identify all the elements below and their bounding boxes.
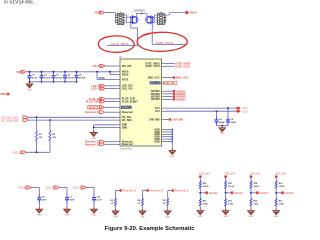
svg-text:LDO_3V3: LDO_3V3 [250,173,261,176]
ground (bottom B) [64,204,70,217]
net label GATE_VBUS (right) [175,62,191,66]
svg-text:C3: C3 [56,75,58,77]
svg-text:I2C_SDA: I2C_SDA [122,119,132,122]
junction [29,81,31,83]
node ADCIN3 [173,95,186,99]
svg-text:LDO_3V3: LDO_3V3 [225,173,236,176]
svg-text:GND: GND [91,138,96,140]
junction [64,81,66,83]
wire right GND bus [165,129,174,149]
svg-text:VBUS: VBUS [190,11,197,15]
svg-text:100.1k: 100.1k [228,186,235,188]
wire VBUS pin 2 branch [110,72,117,75]
svg-text:VIN_3V3: VIN_3V3 [122,65,132,68]
wire ADCIN2 [165,93,173,95]
node PLUG_EVENT [86,100,105,104]
svg-text:VIN_3V3: VIN_3V3 [19,187,29,190]
node RESETZ [88,106,105,110]
wire bottom B [59,188,67,194]
resistor R14 [250,181,260,189]
svg-text:CC2: CC2 [155,110,160,113]
node LDO_3V3 (divider ADCIN2) [224,173,236,178]
node VBUS_C fragment (page edge) [0,93,10,96]
svg-text:C2: C2 [44,75,46,77]
node VBUS_SNK (top-right port) [185,11,197,15]
junction [53,71,55,73]
wire GATE_VBUS [165,63,175,65]
junction [36,116,38,118]
svg-text:GATE_VSYS: GATE_VSYS [155,41,173,45]
resistor R13 [225,199,234,207]
wire CC caps join [217,125,229,127]
node Reserved (row15) [85,140,104,143]
svg-text:330pF: 330pF [231,122,237,124]
svg-text:0.01uF: 0.01uF [44,78,51,80]
svg-text:C8: C8 [219,119,221,121]
wire left GND join [93,125,117,131]
svg-text:GND: GND [154,140,160,143]
svg-text:LDO_1V5: LDO_1V5 [164,83,175,85]
svg-text:0.01uF: 0.01uF [56,78,63,80]
wire SINK_EN [164,82,165,84]
svg-text:330pF: 330pF [219,122,225,124]
svg-text:LDO_1V5: LDO_1V5 [122,87,133,90]
node CAP_MIS [169,118,184,122]
net label GATE_VSYS [155,41,173,45]
svg-text:CC2: CC2 [243,110,249,113]
svg-text:0.01uF: 0.01uF [79,78,86,80]
junction [49,119,51,121]
node I2C_SCL [2,116,29,120]
ground (bottom A) [36,204,42,217]
node VIN_3V3 [92,65,104,69]
junction [76,81,78,83]
svg-text:LDO_3V3: LDO_3V3 [275,173,286,176]
node LDO_3V3 (left) [91,84,104,88]
node Reserved_R (R5) [171,189,188,193]
capacitor C3 [52,72,63,82]
node ADCIN3 (divider tap) [251,191,269,195]
svg-text:Reserved_3V: Reserved_3V [85,144,100,146]
svg-text:R16: R16 [279,183,282,185]
wire VBUS rail [26,71,117,73]
capacitor C9 [226,108,237,126]
svg-text:10k: 10k [39,137,43,139]
junction [41,81,43,83]
capacitor C8 [215,111,226,126]
svg-text:in SLVSF36E.: in SLVSF36E. [4,0,35,6]
capacitor C6 [37,194,47,205]
svg-text:R2: R2 [53,134,55,136]
wire bottom R3 stub [116,191,120,199]
svg-text:GATE_VSYS: GATE_VSYS [146,65,161,68]
svg-text:VSYS: VSYS [122,78,129,81]
wire DBG_ACC [165,77,173,79]
wire LDO_1V5 [105,88,117,90]
junction [53,81,55,83]
svg-text:R3: R3 [110,200,112,202]
node Reserved (row16) [85,143,104,146]
wire ADCIN4 [165,98,173,100]
ground (cap bank) [26,82,32,92]
svg-text:1.00k: 1.00k [279,203,285,205]
svg-text:LDO_3V3: LDO_3V3 [46,187,57,190]
wire divider ADCIN2 top [225,177,227,181]
svg-text:1.00k: 1.00k [254,203,260,205]
wire bottom R5 stub [168,191,172,199]
capacitor C4 [63,72,74,82]
node ADCIN4 (divider tap) [276,191,294,195]
capacitor C10 [92,194,102,205]
svg-text:GND: GND [140,216,145,218]
wire bottom C [86,188,94,194]
wire Q1 gate net [107,23,138,45]
ground (divider ADCIN4) [273,209,279,219]
wire R5 to ground [167,206,169,209]
svg-text:CAP_MIS: CAP_MIS [172,118,184,122]
svg-text:1.00k: 1.00k [228,203,234,205]
wire divider ADCIN4 bottom [275,206,277,209]
svg-text:ADCIN4: ADCIN4 [151,98,161,101]
svg-text:C1: C1 [32,75,34,77]
svg-text:R5: R5 [163,200,165,202]
wire VBUS to connector J2 [105,13,116,15]
wire divider ADCIN3 mid [250,189,252,199]
svg-text:R10: R10 [203,183,206,185]
wire RESETZ [105,106,117,108]
svg-text:GATE_VSYS: GATE_VSYS [175,64,190,68]
wire divider ADCIN4 top [275,177,277,181]
svg-text:SINK_EN: SINK_EN [150,83,160,85]
resistor R4 [137,198,143,206]
svg-text:PLUG_EVENT: PLUG_EVENT [86,101,103,104]
wire ADCIN1 [165,90,173,92]
svg-text:C7: C7 [70,197,72,199]
svg-text:LDO_3V3: LDO_3V3 [199,173,210,176]
svg-text:GND: GND [249,216,254,218]
node LDO_3V3 (divider ADCIN1) [199,173,211,178]
svg-text:Reserved_R: Reserved_R [123,190,137,193]
svg-text:GATE_VBUS: GATE_VBUS [111,42,129,46]
svg-text:GND: GND [198,216,203,218]
ground (CC filter) [219,126,225,136]
resistor R16 [275,181,285,189]
capacitor C2 [40,72,51,82]
capacitor C1 [28,72,38,82]
wire divider ADCIN4 mid [275,189,277,199]
wire I2C_SCL [28,116,117,118]
wire R4 to ground [142,206,144,209]
svg-text:LDO_3V3: LDO_3V3 [13,151,24,154]
svg-text:C10: C10 [97,197,100,199]
svg-text:100.1k: 100.1k [254,186,261,188]
svg-text:VBUS: VBUS [95,11,102,15]
svg-text:GND: GND [92,215,97,217]
ground (bottom R3) [112,209,118,219]
node ADCIN2 [173,92,186,96]
node ADCIN1 (divider tap) [200,191,218,195]
wire VSYS branch [97,72,117,80]
node LDO_3V3 (bottom B) [46,186,59,190]
svg-text:GND: GND [165,216,170,218]
node LDO_1V5 (bottom C) [73,186,86,190]
caption [104,226,195,232]
svg-text:GND: GND [223,216,228,218]
transistor Q1 [129,15,138,24]
wire divider ADCIN1 bottom [199,206,201,209]
svg-text:R13: R13 [228,200,231,202]
ground (bottom C) [91,204,97,217]
node VIN_3V3 (bottom A) [19,186,31,190]
node PLUG_FLIP [89,97,105,101]
svg-text:GND: GND [65,215,70,217]
svg-text:ADCIN4: ADCIN4 [176,97,186,101]
svg-text:VBUS: VBUS [122,73,129,76]
svg-text:100.1k: 100.1k [279,186,286,188]
ground (right of IC) [169,148,175,158]
resistor R10 [199,181,209,189]
svg-text:VIN_3V3: VIN_3V3 [92,65,102,68]
svg-text:1k: 1k [111,203,114,205]
svg-text:10uF: 10uF [42,200,47,202]
svg-text:C4: C4 [68,74,71,77]
resistor R3 [110,198,116,206]
svg-text:CONTROL: CONTROL [134,10,146,13]
svg-text:DBG_ACC: DBG_ACC [148,76,160,79]
node CC1 [237,107,249,110]
node I2C_SDA [2,118,29,122]
svg-text:LDO_1V5: LDO_1V5 [91,88,102,91]
svg-text:C5: C5 [79,75,81,77]
junction [64,71,66,73]
wire LDO_3V3 [105,85,117,87]
svg-text:ADCIN3: ADCIN3 [259,192,269,195]
node ADCIN4 [173,97,186,101]
svg-text:TPS25750D: TPS25750D [120,148,132,150]
svg-text:0.1uF: 0.1uF [97,200,103,202]
svg-text:J3: J3 [160,12,162,14]
svg-text:GND: GND [122,126,128,129]
transistor Q2 [146,15,155,24]
wire Q2 to J3 [154,15,155,22]
node ADCIN1 [173,89,186,93]
svg-text:ADCIN4: ADCIN4 [285,192,295,195]
wire PLUG_FLIP [105,98,117,100]
svg-text:LDO_1V5: LDO_1V5 [73,187,84,190]
wire bottom A [31,188,39,194]
resistor R17 [275,199,284,207]
node DBG_ACC [173,76,189,80]
svg-text:GND: GND [27,89,32,91]
svg-text:R17: R17 [279,200,282,202]
wire divider ADCIN1 top [199,177,201,181]
svg-text:Reserved_R: Reserved_R [150,190,164,193]
node VBUS (cap bank port) [16,70,26,74]
junction [29,71,31,73]
svg-text:R1: R1 [39,134,41,136]
svg-text:Reserved_R: Reserved_R [175,190,189,193]
wire pullup rail [26,141,50,153]
svg-text:10uF: 10uF [70,200,75,202]
wire VIN_3V3 [105,65,117,67]
wire divider ADCIN3 top [250,177,252,181]
ground (divider ADCIN2) [222,209,228,219]
svg-text:VSYS: VSYS [98,77,105,80]
svg-text:RESETZ: RESETZ [122,107,132,109]
resistor R15 [250,199,259,207]
node Reserved_R (R3) [119,189,136,193]
node LDO_3V3 (divider ADCIN3) [250,173,262,178]
ground (left of IC) [91,130,97,140]
node CC2 [237,110,249,113]
svg-text:GND: GND [274,216,279,218]
wire PLUG_EVENT [105,101,117,103]
node Reserved (row10) [85,111,104,114]
junction [96,71,98,73]
wire CC1 [165,107,237,109]
node SINK_EN flag [164,81,177,85]
svg-text:CAP_MIS: CAP_MIS [149,118,160,121]
wire GATE_VSYS [165,65,175,67]
ground (bottom R5) [165,209,171,219]
wire CC2 [165,110,237,112]
connector J2 [115,12,125,25]
svg-text:VBUS: VBUS [16,70,23,74]
svg-text:C6: C6 [42,197,44,199]
svg-text:Reserved_3V: Reserved_3V [85,112,100,114]
net label VSYS [98,77,105,80]
svg-text:Figure 9-20. Example Schematic: Figure 9-20. Example Schematic [104,226,195,232]
net label GATE_VSYS (right) [175,64,190,68]
svg-text:1k: 1k [138,203,141,205]
junction [41,71,43,73]
resistor R12 [225,181,235,189]
svg-text:R4: R4 [137,199,140,202]
wire ADCIN3 [165,96,173,98]
annotation circle 2 [137,32,187,51]
svg-text:RESETZ: RESETZ [89,106,99,109]
wire divider ADCIN1 mid [199,189,201,199]
resistor R2 (SDA pullup) [49,120,57,141]
svg-text:GND: GND [170,156,175,158]
capacitor C7 [65,194,75,205]
IC U1 TPS25750D [117,57,165,150]
label CONTROL [134,10,146,13]
svg-text:DBG_ACC: DBG_ACC [176,76,189,80]
svg-text:I2C_SDA_3V3: I2C_SDA_3V3 [2,118,19,122]
svg-text:Reserved: Reserved [122,143,133,146]
svg-text:U1: U1 [119,57,123,59]
svg-text:PLUG_EVENT: PLUG_EVENT [122,100,138,103]
junction [109,71,111,73]
wire divider ADCIN3 bottom [250,206,252,209]
wire Q1 drain to Q2 drain (top rail) [137,13,148,18]
node ADCIN2 (divider tap) [226,191,244,195]
svg-text:4.7uF: 4.7uF [32,77,38,80]
svg-text:100.1k: 100.1k [203,186,210,188]
junction [216,110,218,112]
svg-text:R15: R15 [254,200,257,202]
ground (divider ADCIN3) [248,209,254,219]
annotation circle 1 [98,36,134,52]
page header text fragment [4,0,35,6]
node LDO_3V3 (pullup rail) [13,151,26,155]
connector J3 [156,12,166,25]
svg-text:C9: C9 [231,119,233,121]
svg-text:0.01uF: 0.01uF [68,78,75,80]
wire I2C_SDA [28,119,117,121]
svg-text:GND: GND [220,133,225,135]
junction [76,71,78,73]
svg-text:ADCIN2: ADCIN2 [234,192,244,195]
svg-text:GND: GND [113,216,118,218]
wire Reserved row10 [105,111,117,113]
svg-text:ADCIN1: ADCIN1 [209,192,219,195]
wire divider ADCIN2 mid [225,189,227,199]
wire CAP_MIS [165,119,169,121]
ground (bottom R4) [139,209,145,219]
svg-text:J2: J2 [120,12,122,14]
wire Q2 gate net [152,23,186,44]
wire divider ADCIN2 bottom [225,206,227,209]
node LDO_1V5 (left) [91,87,104,91]
wire Reserved row16 [105,143,117,145]
resistor R11 [199,199,208,207]
svg-text:R14: R14 [254,182,258,185]
capacitor C5 [75,72,86,82]
svg-text:10k: 10k [53,137,57,139]
svg-text:1k: 1k [163,203,166,205]
resistor R1 (SCL pullup) [35,117,43,141]
junction [227,107,229,109]
resistor R5 [163,198,169,206]
svg-text:R12: R12 [228,183,231,185]
wire J2 to Q1 [125,15,129,22]
wire J3 to output port [166,13,185,15]
svg-text:R11: R11 [203,200,206,202]
wire R3 to ground [115,206,117,209]
svg-text:GND: GND [37,215,42,217]
net label GATE_VBUS [111,42,129,46]
svg-text:Reserved: Reserved [122,111,133,114]
node LDO_3V3 (divider ADCIN4) [275,173,287,178]
wire cap bank bottom rail [30,81,77,83]
node VBUS (top-left port) [95,11,105,15]
wire bottom R4 stub [143,191,147,199]
node Reserved_R (R4) [146,189,163,193]
wire Reserved row15 [105,141,117,143]
ground (divider ADCIN1) [197,209,203,219]
svg-text:1.00k: 1.00k [203,203,209,205]
